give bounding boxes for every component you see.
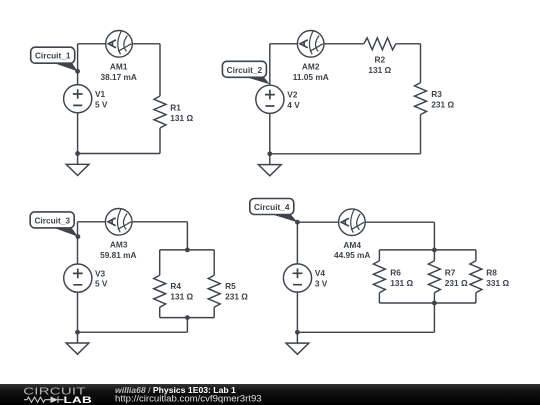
svg-text:V4: V4 <box>315 268 326 278</box>
svg-text:R4: R4 <box>170 281 181 291</box>
svg-text:4 V: 4 V <box>287 100 300 110</box>
svg-text:5 V: 5 V <box>95 279 108 289</box>
svg-text:131 Ω: 131 Ω <box>368 65 391 75</box>
svg-text:3 V: 3 V <box>315 279 328 289</box>
svg-text:R6: R6 <box>390 268 401 278</box>
svg-text:59.81 mA: 59.81 mA <box>100 250 136 260</box>
svg-text:V3: V3 <box>95 268 106 278</box>
svg-text:Circuit_3: Circuit_3 <box>34 215 70 225</box>
svg-text:V1: V1 <box>95 89 106 99</box>
svg-text:44.95 mA: 44.95 mA <box>334 250 370 260</box>
svg-text:LAB: LAB <box>64 396 93 405</box>
svg-text:V2: V2 <box>287 90 298 100</box>
svg-text:R8: R8 <box>486 268 497 278</box>
svg-text:Circuit_4: Circuit_4 <box>254 202 290 212</box>
svg-text:AM3: AM3 <box>110 240 128 250</box>
svg-text:131 Ω: 131 Ω <box>170 292 193 302</box>
svg-text:R5: R5 <box>225 281 236 291</box>
svg-text:5 V: 5 V <box>95 99 108 109</box>
svg-text:R1: R1 <box>170 103 181 113</box>
svg-text:R7: R7 <box>445 268 456 278</box>
svg-text:131 Ω: 131 Ω <box>390 278 413 288</box>
svg-text:Circuit_1: Circuit_1 <box>35 51 71 61</box>
svg-text:331 Ω: 331 Ω <box>486 278 509 288</box>
svg-text:11.05 mA: 11.05 mA <box>293 72 329 82</box>
svg-text:R2: R2 <box>374 55 385 65</box>
svg-text:AM2: AM2 <box>302 62 320 72</box>
svg-text:AM1: AM1 <box>110 62 128 72</box>
svg-text:Circuit_2: Circuit_2 <box>227 65 263 75</box>
svg-text:231 Ω: 231 Ω <box>431 100 454 110</box>
svg-text:R3: R3 <box>431 89 442 99</box>
svg-text:231 Ω: 231 Ω <box>225 292 248 302</box>
svg-text:AM4: AM4 <box>343 240 361 250</box>
svg-text:231 Ω: 231 Ω <box>445 278 468 288</box>
svg-text:131 Ω: 131 Ω <box>170 113 193 123</box>
svg-text:http://circuitlab.com/cvf9qmer: http://circuitlab.com/cvf9qmer3rt93 <box>115 394 262 405</box>
svg-text:38.17 mA: 38.17 mA <box>100 72 136 82</box>
